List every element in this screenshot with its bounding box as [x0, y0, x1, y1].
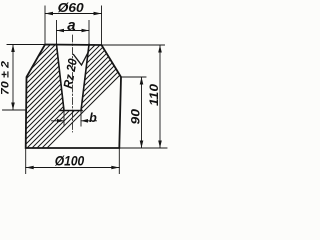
a extension lines — [57, 21, 90, 45]
70±2 — [11, 45, 15, 53]
svg-text:90: 90 — [130, 108, 142, 124]
a dimension line — [57, 30, 90, 32]
svg-text:b: b — [89, 111, 97, 125]
a — [57, 29, 65, 33]
extension line of hole bottom to the left (for 70±2) — [3, 109, 26, 111]
svg-text:a: a — [67, 17, 75, 34]
b dimension line + tails — [52, 120, 97, 122]
extension line of right shoulder (for 90) — [121, 76, 146, 78]
dia100 extension lines — [26, 148, 120, 174]
b extension lines — [64, 111, 81, 127]
hole bottom line — [60, 110, 83, 112]
b (outside arrows) — [57, 119, 64, 123]
dia60 extension lines — [45, 6, 102, 45]
dia100 — [26, 166, 34, 170]
dia60 dimension line — [45, 13, 102, 15]
centerline dash-dot — [72, 35, 74, 132]
svg-text:Rz 20: Rz 20 — [61, 58, 80, 90]
hatching 45deg — [0, 0, 195, 150]
dia60 — [45, 12, 53, 16]
70±2 dimension line — [12, 45, 14, 111]
roughness check mark — [74, 52, 89, 65]
110 — [158, 45, 162, 53]
tapered hole walls — [57, 45, 90, 111]
110 dimension line — [159, 45, 161, 148]
baseline extension to the right for 90/110 — [119, 147, 167, 149]
90 — [140, 77, 144, 85]
thin lines — [3, 6, 168, 174]
dia100 dimension line — [26, 167, 120, 169]
svg-text:70 ± 2: 70 ± 2 — [0, 61, 12, 95]
white window for letter b — [88, 111, 99, 123]
90 dimension line — [141, 77, 143, 148]
svg-text:Ø60: Ø60 — [58, 1, 84, 15]
svg-text:Ø100: Ø100 — [55, 154, 85, 169]
svg-text:110: 110 — [149, 83, 161, 106]
arrows — [11, 12, 162, 170]
top horizontal extension line (left for 70, right for 110) — [7, 44, 165, 47]
part outline — [26, 45, 121, 149]
